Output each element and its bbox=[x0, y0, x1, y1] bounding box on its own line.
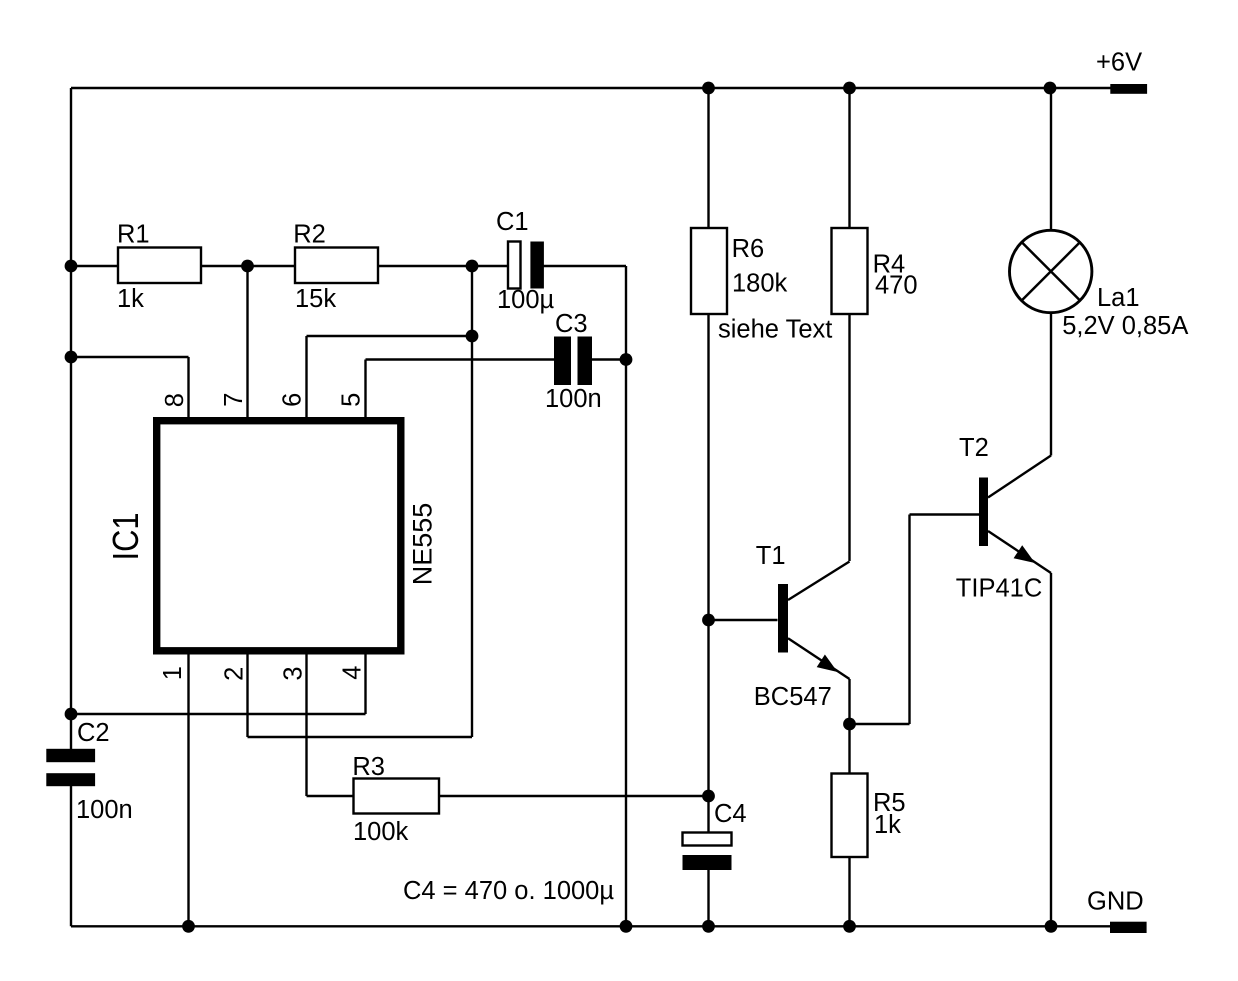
svg-text:C3: C3 bbox=[555, 310, 588, 338]
wire pin8 down to IC bbox=[187, 357, 189, 417]
wire C3 right lead bbox=[592, 358, 626, 360]
wire C1 right lead bbox=[542, 265, 626, 267]
wire R4 bottom / T1 collector vertical bbox=[848, 314, 850, 561]
svg-text:4: 4 bbox=[339, 666, 367, 680]
transistor Q1 emitter arrow bbox=[817, 655, 838, 673]
wire T1 base lead bbox=[709, 619, 778, 621]
terminal GND bar bbox=[1110, 922, 1147, 933]
wire pin6 horizontal to link bbox=[307, 335, 473, 337]
svg-text:BC547: BC547 bbox=[754, 683, 832, 711]
svg-text:R3: R3 bbox=[352, 753, 385, 781]
wire lamp top lead bbox=[1050, 88, 1052, 231]
node C4 ground junction bbox=[702, 920, 715, 933]
lamp La1 circle bbox=[1009, 230, 1091, 312]
wire R6 bottom lead down to C4 bbox=[707, 314, 709, 833]
wire C4 bottom lead bbox=[707, 869, 709, 926]
svg-text:470: 470 bbox=[875, 271, 918, 299]
node R5 ground junction bbox=[843, 920, 856, 933]
wire emitter node to T2 base horizontal bbox=[850, 723, 910, 725]
wire T1 collector diagonal bbox=[788, 562, 850, 601]
wire pin4 down bbox=[364, 654, 366, 714]
wire GND bottom rail bbox=[71, 925, 1110, 927]
resistor R5 bbox=[832, 774, 868, 858]
wire T2 base riser bbox=[908, 515, 910, 725]
svg-text:100n: 100n bbox=[76, 796, 133, 824]
wire node pins2+6 vertical link bbox=[471, 266, 473, 737]
wire pin2 horizontal to link bbox=[248, 736, 473, 738]
wire pin1 to ground rail bbox=[187, 654, 189, 926]
svg-text:C1: C1 bbox=[496, 208, 529, 236]
svg-text:15k: 15k bbox=[295, 285, 336, 313]
svg-text:C4 = 470 o. 1000µ: C4 = 470 o. 1000µ bbox=[403, 877, 614, 905]
svg-text:3: 3 bbox=[280, 666, 308, 680]
wire pin5 to C3 bbox=[366, 358, 555, 360]
wire T2 collector vertical to lamp bbox=[1050, 313, 1052, 456]
node T2 emitter ground junction bbox=[1045, 920, 1058, 933]
lamp La1 cross stroke 1 bbox=[1022, 243, 1079, 300]
wire +6V top rail bbox=[71, 87, 1111, 89]
node R6 supply junction bbox=[702, 82, 715, 95]
wire T2 emitter down to ground rail bbox=[1050, 573, 1052, 926]
node pin4 left-rail junction bbox=[65, 708, 78, 721]
svg-text:100µ: 100µ bbox=[497, 286, 555, 314]
capacitor C2 bottom plate bbox=[46, 773, 95, 786]
capacitor C1 negative plate bbox=[530, 242, 544, 289]
wire R2 to C1 bbox=[378, 265, 509, 267]
node pin1 ground junction bbox=[182, 920, 195, 933]
resistor R4 bbox=[832, 228, 868, 314]
wire T2 collector diagonal bbox=[988, 456, 1051, 498]
IC U1 NE555 body bbox=[157, 421, 401, 651]
svg-text:siehe Text: siehe Text bbox=[718, 315, 832, 343]
svg-text:1: 1 bbox=[159, 666, 187, 680]
svg-text:NE555: NE555 bbox=[408, 503, 438, 586]
svg-text:8: 8 bbox=[161, 393, 189, 407]
svg-text:T2: T2 bbox=[959, 434, 989, 462]
wire pin3 to R3 bbox=[307, 795, 354, 797]
wire pin6 up bbox=[305, 336, 307, 417]
resistor R2 bbox=[295, 248, 378, 284]
node T1 base junction bbox=[702, 614, 715, 627]
node R4 supply junction bbox=[843, 82, 856, 95]
svg-text:5,2V 0,85A: 5,2V 0,85A bbox=[1062, 312, 1188, 340]
wire pin8 horizontal from left rail bbox=[71, 356, 189, 358]
wire R5 bottom lead bbox=[848, 857, 850, 926]
wire R4 top lead bbox=[848, 88, 850, 228]
capacitor C4 top plate bbox=[683, 833, 732, 846]
svg-text:TIP41C: TIP41C bbox=[956, 575, 1042, 603]
node T1 emitter/R5 junction bbox=[843, 718, 856, 731]
svg-text:7: 7 bbox=[220, 393, 248, 407]
svg-text:IC1: IC1 bbox=[105, 513, 146, 561]
wire right drop C1/C3 to ground rail bbox=[625, 266, 627, 926]
wire pin3 down bbox=[305, 654, 307, 796]
wire R3 to C4 node bbox=[439, 795, 709, 797]
wire T2 emitter diagonal bbox=[988, 531, 1051, 573]
capacitor C2 top plate bbox=[46, 749, 95, 762]
capacitor C3 right plate bbox=[578, 337, 593, 386]
svg-text:GND: GND bbox=[1087, 887, 1144, 915]
svg-text:+6V: +6V bbox=[1096, 48, 1142, 76]
wire R6 top lead bbox=[707, 88, 709, 228]
svg-text:1k: 1k bbox=[874, 811, 901, 839]
svg-text:6: 6 bbox=[279, 393, 307, 407]
capacitor C4 bottom plate bbox=[683, 855, 732, 870]
svg-text:T1: T1 bbox=[756, 542, 786, 570]
capacitor C3 left plate bbox=[554, 337, 571, 386]
wire R1 left lead bbox=[71, 265, 118, 267]
lamp La1 cross stroke 2 bbox=[1022, 243, 1079, 300]
wire pin2 down bbox=[246, 654, 248, 737]
node R2/C1/link junction bbox=[466, 260, 479, 273]
node right-drop ground junction bbox=[620, 920, 633, 933]
wire pin4 horizontal to left rail bbox=[71, 713, 366, 715]
resistor R6 bbox=[691, 228, 727, 314]
svg-text:C4: C4 bbox=[714, 800, 747, 828]
wire left rail lower (C2 to GND rail) bbox=[70, 786, 72, 927]
node R3/C4 junction bbox=[702, 790, 715, 803]
svg-text:5: 5 bbox=[338, 393, 366, 407]
wire pin7 to R1/R2 junction bbox=[246, 266, 248, 417]
node pin6 link junction bbox=[466, 330, 479, 343]
wire left supply rail upper bbox=[70, 88, 72, 750]
resistor R1 bbox=[118, 248, 201, 284]
svg-text:R1: R1 bbox=[117, 221, 150, 249]
svg-text:R6: R6 bbox=[732, 235, 765, 263]
svg-text:1k: 1k bbox=[117, 285, 144, 313]
svg-text:2: 2 bbox=[221, 667, 249, 681]
svg-text:100n: 100n bbox=[545, 385, 602, 413]
svg-text:180k: 180k bbox=[732, 269, 788, 297]
node C3 right junction bbox=[620, 353, 633, 366]
svg-text:R2: R2 bbox=[293, 221, 326, 249]
terminal +6V bar bbox=[1110, 84, 1147, 94]
node R1 left junction bbox=[65, 260, 78, 273]
wire T1 emitter diagonal bbox=[788, 638, 850, 679]
transistor Q2 emitter arrow bbox=[1014, 545, 1035, 563]
transistor Q2 base bar bbox=[979, 478, 988, 547]
capacitor C1 positive plate bbox=[508, 242, 521, 289]
svg-text:100k: 100k bbox=[353, 818, 409, 846]
node lamp supply junction bbox=[1044, 82, 1057, 95]
resistor R3 bbox=[354, 779, 440, 814]
node R1/R2/pin7 junction bbox=[241, 260, 254, 273]
wire R1 to R2 bbox=[201, 265, 295, 267]
transistor Q1 base bar bbox=[778, 584, 788, 653]
svg-text:La1: La1 bbox=[1097, 284, 1140, 312]
node pin8 left-rail junction bbox=[65, 351, 78, 364]
wire T1 emitter vertical to R5 bbox=[848, 679, 850, 774]
wire pin5 up bbox=[364, 360, 366, 418]
wire T2 base lead bbox=[910, 513, 980, 515]
svg-text:C2: C2 bbox=[77, 719, 110, 747]
